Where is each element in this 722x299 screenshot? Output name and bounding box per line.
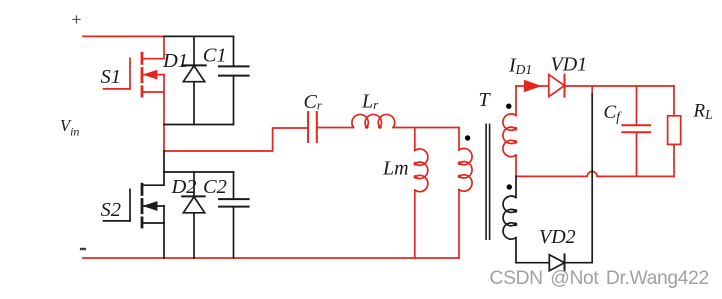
svg-text:VD2: VD2: [539, 226, 576, 248]
svg-text:D1: D1: [162, 50, 188, 72]
svg-text:Lm: Lm: [382, 158, 409, 180]
svg-text:C1: C1: [203, 45, 227, 67]
svg-text:S1: S1: [101, 66, 122, 88]
svg-text:CSDN @Not Dr.Wang422: CSDN @Not Dr.Wang422: [490, 268, 709, 289]
svg-text:S2: S2: [101, 199, 122, 221]
svg-text:C2: C2: [203, 176, 227, 198]
svg-text:+: +: [72, 10, 82, 29]
svg-text:D2: D2: [171, 176, 197, 198]
svg-text:VD1: VD1: [551, 54, 588, 76]
svg-text:T: T: [479, 89, 492, 111]
